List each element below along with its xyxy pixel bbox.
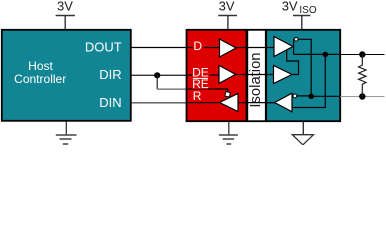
isolator digital-side block (red)	[187, 30, 247, 121]
wire inverted output to B	[298, 39, 311, 96]
isolation barrier bar	[247, 30, 265, 121]
enable square on R buffer	[225, 92, 231, 98]
wire B inside block	[297, 95, 340, 97]
power symbol 3V (isolator left side)	[218, 16, 237, 30]
receiver triangle (transceiver)	[275, 93, 292, 112]
wire A to receiver lower input	[292, 54, 325, 107]
bus line A	[340, 54, 384, 56]
junction B	[308, 94, 314, 100]
svg-text:Host: Host	[28, 59, 53, 73]
receiver buffer R (red side)	[220, 94, 239, 112]
transceiver block (teal)	[266, 30, 340, 121]
svg-text:DIR: DIR	[99, 67, 121, 82]
wire DIR to DE	[132, 74, 220, 76]
wire branch to RE	[157, 88, 186, 90]
wire DE buffer to driver enable	[287, 51, 299, 75]
ground (isolator)	[219, 122, 238, 145]
wire DE across isolation	[187, 74, 274, 77]
label RE(bar)	[192, 79, 209, 89]
junction on DIR	[154, 72, 160, 78]
wire D across isolation	[187, 47, 274, 49]
driver inverting output bubble	[294, 37, 298, 41]
svg-text:3V: 3V	[282, 0, 298, 13]
label DE	[192, 67, 210, 77]
junction A	[323, 52, 329, 58]
junction B bus	[359, 93, 365, 99]
wire DOUT to D	[132, 47, 220, 49]
buffer DE (red side)	[219, 65, 236, 83]
svg-text:3V: 3V	[57, 0, 73, 13]
junction A bus	[359, 51, 365, 57]
power symbol 3V_ISO (transceiver)	[293, 16, 310, 30]
receiver inverting input bubble	[293, 94, 297, 98]
svg-text:ISO: ISO	[299, 5, 316, 16]
svg-text:3V: 3V	[219, 0, 235, 13]
svg-text:R: R	[193, 89, 202, 103]
termination resistor RT	[359, 55, 366, 97]
ground (host)	[56, 122, 77, 145]
enable buffer DE (transceiver)	[274, 66, 293, 84]
svg-text:Controller: Controller	[14, 72, 66, 86]
driver triangle (transceiver)	[274, 37, 293, 57]
svg-text:DIN: DIN	[99, 95, 121, 110]
buffer D (red side)	[220, 39, 237, 57]
svg-text:Isolation: Isolation	[248, 52, 264, 107]
bus line B	[340, 96, 384, 98]
wire R to DIN	[132, 102, 187, 104]
driver output split stub	[292, 39, 295, 55]
label R	[193, 92, 203, 101]
wire RE to enable	[187, 89, 228, 92]
svg-text:D: D	[193, 39, 202, 53]
svg-text:DOUT: DOUT	[85, 40, 122, 55]
wire R across isolation	[187, 102, 275, 104]
wire A output	[294, 53, 340, 55]
iso ground (transceiver)	[302, 122, 304, 135]
power symbol 3V (host)	[56, 16, 75, 30]
host controller block U1	[2, 30, 131, 121]
label D	[193, 41, 204, 51]
wire DIR branch down	[156, 75, 158, 89]
